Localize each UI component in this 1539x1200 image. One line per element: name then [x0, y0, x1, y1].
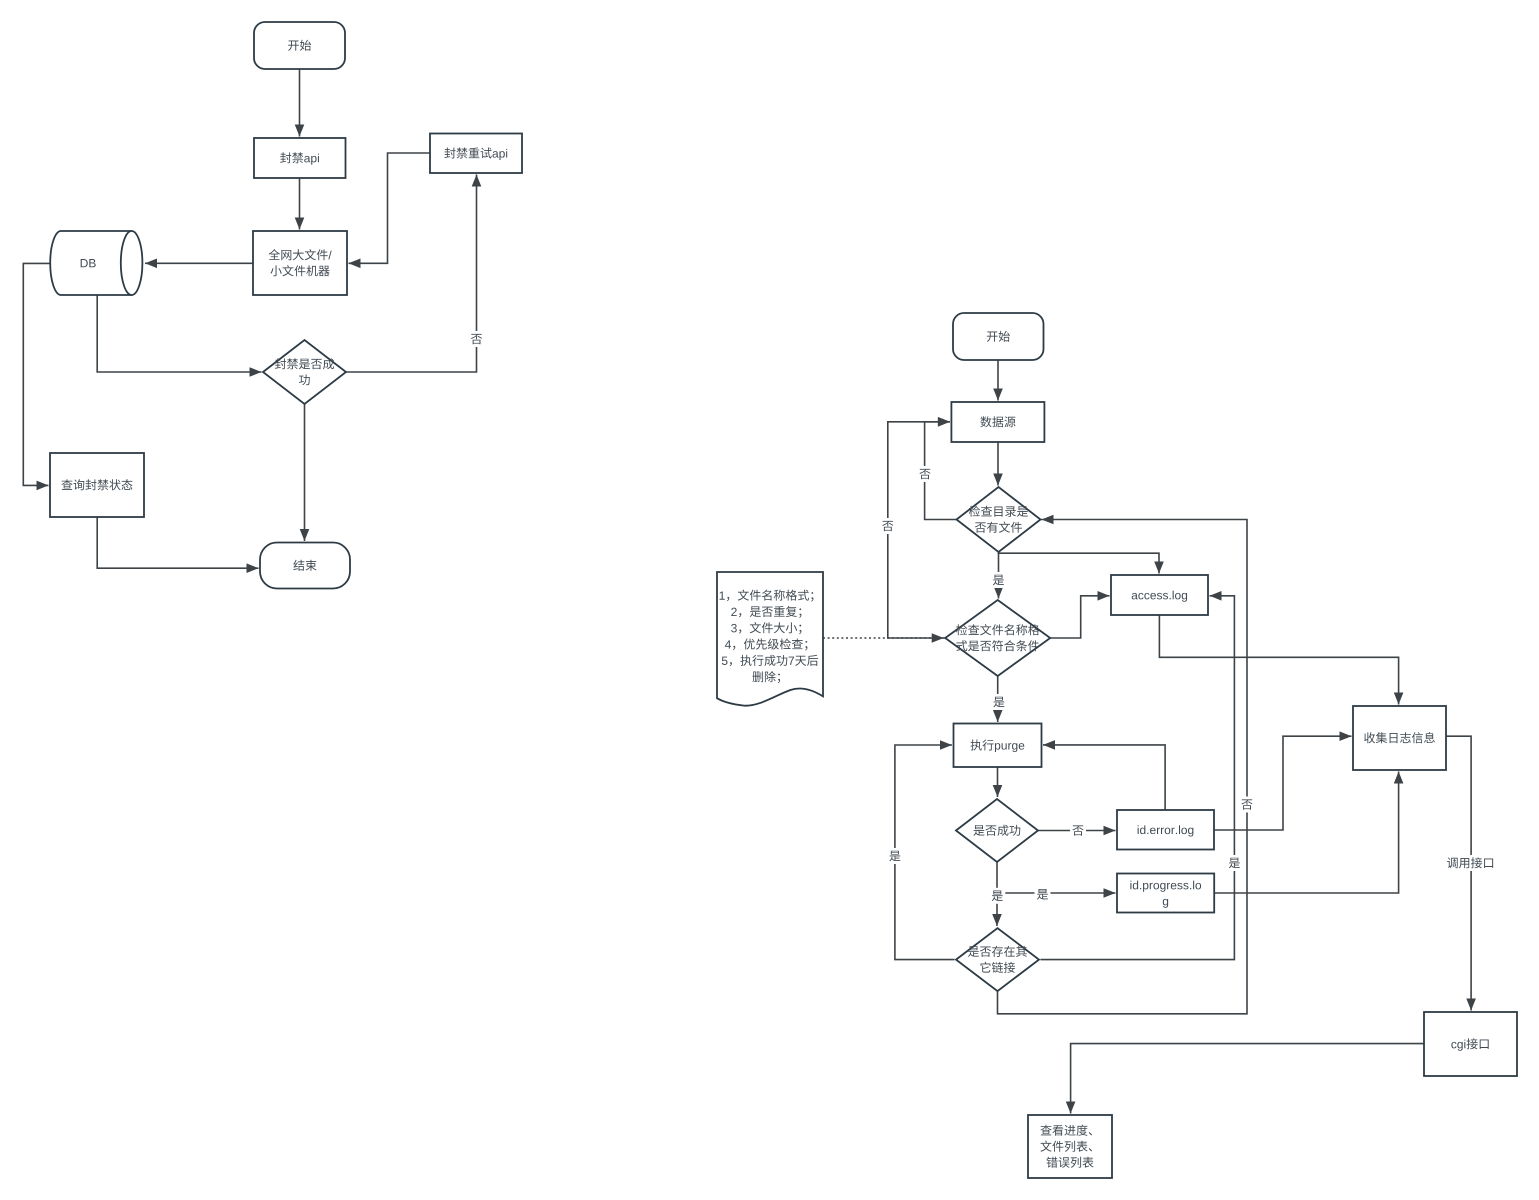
wire 收集日志信息→调用接口→cgi接口: [1446, 736, 1476, 1010]
process 封禁重试api: [430, 134, 522, 174]
wire id.error.log→执行purge: [1043, 740, 1165, 810]
label 否 (检查文件名称格式→数据源): [880, 518, 896, 534]
wire 检查文件名称格式→是→执行purge: [993, 676, 1003, 722]
wire 是否存在其它链接→是→执行purge: [895, 740, 955, 959]
terminator 结束 (left): [260, 543, 350, 589]
decision 检查目录是否有文件: [957, 487, 1041, 552]
wire 封禁重试api→全网大文件机器: [349, 153, 431, 268]
wire 查询封禁状态→结束: [97, 517, 258, 573]
wire 检查目录是否有文件→access.log: [999, 552, 1164, 574]
wire 检查目录是否有文件→是→检查文件名称格式: [994, 552, 1004, 599]
database DB (cylinder): [50, 231, 142, 295]
process 封禁api: [254, 138, 346, 178]
wire 是否成功→是→id.progress.log: [997, 888, 1116, 898]
process id.progress.log: [1117, 874, 1214, 913]
decision 是否成功: [956, 799, 1038, 862]
label 否 (是否成功→id.error.log): [1070, 823, 1086, 839]
wire 数据源→检查目录是否有文件: [993, 442, 1003, 486]
wire 是否成功→是→是否存在其它链接: [992, 862, 1002, 926]
label 是 (检查目录→检查文件名称格式): [991, 572, 1007, 588]
label 是 (检查文件名称格式→执行purge): [991, 694, 1007, 710]
annotation document 文件检查条件: [717, 572, 823, 706]
wire 封禁api→全网大文件机器: [295, 179, 305, 230]
wire 检查目录是否有文件→否→数据源: [925, 417, 957, 520]
wire cgi接口→查看进度: [1066, 1044, 1424, 1114]
label 调用接口 (收集日志信息→cgi接口): [1445, 855, 1497, 871]
process 查询封禁状态: [50, 453, 144, 517]
label 否 (封禁是否成功→封禁重试api): [469, 331, 485, 347]
process 执行purge: [954, 724, 1042, 768]
wire id.progress.log→收集日志信息: [1214, 772, 1403, 894]
wire access.log→收集日志信息: [1159, 615, 1403, 705]
label 是 (是否存在其它链接→access.log): [1226, 855, 1242, 871]
wire 是否存在其它链接→是→access.log: [1041, 591, 1235, 960]
process 查看进度/文件列表/错误列表: [1028, 1115, 1112, 1178]
wire 开始→封禁api: [295, 69, 305, 137]
label 否 (检查目录→数据源): [917, 466, 933, 482]
wire 是否成功→否→id.error.log: [1038, 826, 1116, 836]
process access.log: [1111, 575, 1208, 615]
wire id.error.log→收集日志信息: [1214, 731, 1352, 830]
wire DB→封禁是否成功: [97, 295, 261, 377]
process id.error.log: [1117, 810, 1214, 850]
wire 检查文件名称格式→access.log: [1050, 591, 1109, 638]
wire 执行purge→是否成功: [993, 767, 1003, 797]
wire 注释文档→检查文件名称格式 (dotted): [823, 633, 944, 643]
wire 检查文件名称格式→否→数据源: [888, 417, 950, 638]
wire DB→查询封禁状态: [23, 263, 52, 490]
decision 检查文件名称格式是否符合条件: [945, 600, 1050, 676]
label 是 (是否存在其它链接→执行purge): [887, 848, 903, 864]
label 是 (是否成功→id.progress.log): [1035, 886, 1051, 902]
process 收集日志信息: [1353, 706, 1446, 770]
process 数据源: [951, 402, 1044, 442]
terminator 开始 (left): [254, 22, 345, 69]
wire 全网大文件机器→DB: [145, 259, 253, 269]
decision 封禁是否成功: [263, 340, 346, 404]
label 否 (是否存在其它链接→检查目录): [1239, 797, 1255, 813]
terminator 开始 (right): [953, 313, 1044, 360]
wire 是否存在其它链接→否→检查目录是否有文件: [998, 515, 1248, 1014]
wire 封禁是否成功→结束: [300, 404, 310, 541]
wire 封禁是否成功→否→封禁重试api: [346, 175, 481, 373]
decision 是否存在其它链接: [956, 928, 1039, 991]
label 是 (是否成功→是否存在其它链接): [989, 888, 1005, 904]
wire 开始→数据源: [993, 360, 1003, 401]
process 全网大文件/小文件机器: [253, 231, 347, 295]
process cgi接口: [1424, 1012, 1517, 1076]
